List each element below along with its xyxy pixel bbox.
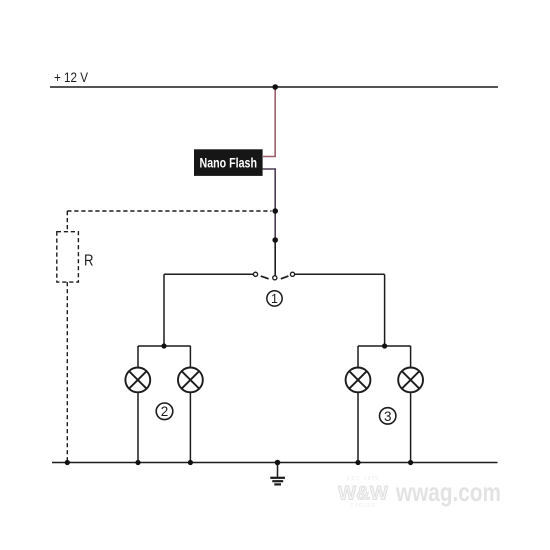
svg-text:Nano Flash: Nano Flash xyxy=(200,155,258,171)
svg-text:EST. 1979: EST. 1979 xyxy=(347,476,379,482)
svg-text:wwag.com: wwag.com xyxy=(395,477,501,507)
svg-text:1: 1 xyxy=(271,292,278,306)
svg-text:CYCLES: CYCLES xyxy=(350,503,376,509)
svg-text:3: 3 xyxy=(384,409,392,424)
svg-text:R: R xyxy=(84,253,94,270)
svg-text:2: 2 xyxy=(161,404,169,419)
svg-text:+ 12 V: + 12 V xyxy=(54,69,89,85)
svg-text:W&W: W&W xyxy=(338,484,388,505)
